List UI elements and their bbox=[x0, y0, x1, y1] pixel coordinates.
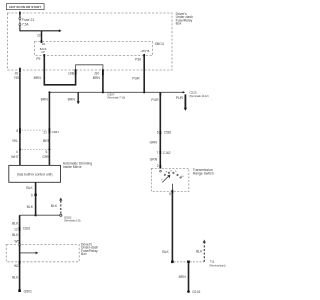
terminal J9 at fuse box bottom bbox=[19, 68, 21, 73]
svg-text:6: 6 bbox=[46, 150, 48, 154]
svg-text:C831: C831 bbox=[23, 227, 31, 231]
svg-text:6: 6 bbox=[31, 193, 33, 197]
svg-text:J10: J10 bbox=[94, 71, 100, 75]
svg-text:7.5A: 7.5A bbox=[22, 22, 29, 26]
svg-text:4: 4 bbox=[16, 150, 18, 154]
svg-text:(has built-in control unit): (has built-in control unit) bbox=[17, 173, 53, 177]
svg-text:PUR: PUR bbox=[176, 96, 184, 100]
svg-text:8: 8 bbox=[16, 129, 18, 133]
svg-text:HOT IN ON OR START: HOT IN ON OR START bbox=[9, 5, 41, 9]
svg-text:2: 2 bbox=[157, 164, 159, 168]
svg-text:BLK: BLK bbox=[27, 205, 34, 209]
wire into TRS bbox=[159, 154, 161, 168]
svg-text:W5: W5 bbox=[14, 239, 19, 243]
junction dot bbox=[34, 214, 36, 216]
link from wiper to output bbox=[171, 184, 173, 192]
arrow: feed continues to other circuits bbox=[59, 29, 62, 32]
svg-text:21: 21 bbox=[43, 131, 47, 135]
svg-text:(Terminals 1-8): (Terminals 1-8) bbox=[64, 219, 81, 223]
svg-text:Range Switch: Range Switch bbox=[193, 171, 214, 175]
svg-text:(Terminals 7-10): (Terminals 7-10) bbox=[107, 96, 125, 100]
svg-text:C525: C525 bbox=[189, 90, 197, 94]
svg-text:W2: W2 bbox=[14, 264, 19, 268]
hot-at-all-times label box bbox=[6, 4, 44, 10]
wire: P30 down out of box (PUR) bbox=[143, 55, 145, 91]
junction dot at P30 wire bbox=[143, 91, 145, 93]
svg-text:BRN: BRN bbox=[68, 97, 76, 101]
svg-text:22: 22 bbox=[37, 33, 41, 37]
internal jumper 10B to J10 bbox=[76, 65, 103, 70]
svg-text:PUR: PUR bbox=[151, 98, 159, 102]
svg-text:C581: C581 bbox=[164, 131, 172, 135]
label bottom box bbox=[81, 243, 98, 256]
junction dot left end bbox=[48, 91, 50, 93]
wire: junction line down to TRS (PUR) bbox=[159, 93, 161, 96]
connector C831 terminal 12 bbox=[19, 227, 21, 231]
svg-text:BLK: BLK bbox=[12, 276, 19, 280]
wire: bus down to under-dash box (BLK) bbox=[19, 215, 21, 290]
wire: TRS down (BLK) bbox=[171, 194, 173, 261]
wire: J9 down to mirror (YEL) bbox=[19, 72, 21, 165]
transmission range switch (dashed box) bbox=[151, 168, 188, 191]
dashed reference arrow up (BLK, ground distribution) bbox=[203, 242, 205, 262]
wire: T11 to ground (BRN) bbox=[188, 263, 190, 290]
SBCU sub-unit (dashed) bbox=[34, 42, 152, 56]
connector C162 terminal 7 bbox=[159, 151, 161, 155]
TRS output terminal bbox=[172, 190, 174, 194]
svg-text:12: 12 bbox=[14, 227, 18, 231]
splice square bbox=[171, 261, 174, 264]
svg-text:C831: C831 bbox=[52, 130, 60, 134]
svg-text:BLK: BLK bbox=[26, 186, 33, 190]
terminal tick at SBCU top bbox=[41, 40, 43, 43]
power entry terminal at box top bbox=[19, 12, 21, 15]
svg-text:10B: 10B bbox=[68, 71, 75, 75]
svg-text:Box: Box bbox=[176, 21, 182, 25]
wire: fuse output, down and right, ends in arrow (continues) bbox=[20, 25, 59, 31]
fuse 21 (7.5A) bbox=[19, 18, 21, 26]
svg-text:Inside Mirror: Inside Mirror bbox=[63, 165, 83, 169]
svg-text:5: 5 bbox=[157, 131, 159, 135]
in-line connector C831 bbox=[22, 129, 48, 131]
wire: mirror ground (BLK) bbox=[35, 182, 37, 215]
svg-text:GRN: GRN bbox=[150, 158, 158, 162]
wire: junction line down to mirror (BRN) bbox=[48, 92, 50, 165]
svg-text:ATP B: ATP B bbox=[141, 49, 149, 53]
svg-text:(Terminals 10-12): (Terminals 10-12) bbox=[189, 94, 209, 98]
svg-text:BLK: BLK bbox=[12, 222, 19, 226]
T11 square bbox=[187, 261, 190, 264]
svg-text:7: 7 bbox=[156, 151, 158, 155]
internal arrow bbox=[21, 252, 36, 254]
connector C581 terminal 5 bbox=[159, 131, 161, 135]
svg-text:BLK: BLK bbox=[196, 250, 203, 254]
svg-text:G101: G101 bbox=[192, 290, 200, 294]
svg-text:BRN: BRN bbox=[93, 76, 101, 80]
svg-text:GRN: GRN bbox=[149, 140, 157, 144]
svg-text:BRN: BRN bbox=[34, 76, 42, 80]
terminal 2 at TRS bbox=[159, 165, 161, 168]
ground G501 bbox=[18, 289, 21, 292]
wire: J10 down to junction line (BRN) bbox=[102, 75, 104, 93]
terminal J10 bbox=[102, 69, 104, 75]
driver's under-dash fuse/relay box (bottom, dashed) bbox=[6, 245, 79, 262]
svg-text:YEL: YEL bbox=[12, 139, 19, 143]
svg-text:BRN: BRN bbox=[179, 275, 187, 279]
svg-text:C162: C162 bbox=[163, 151, 171, 155]
hanging arrow below C525 (continues, PUR) bbox=[184, 94, 186, 108]
svg-text:Box: Box bbox=[81, 252, 87, 256]
svg-text:WHT: WHT bbox=[11, 155, 18, 159]
dashed reference arrow up (BLK) bbox=[60, 200, 62, 214]
terminal 10B bbox=[75, 69, 77, 75]
automatic dimming inside mirror box bbox=[9, 165, 61, 182]
junction line C507/C525 bbox=[50, 91, 185, 93]
svg-text:P9: P9 bbox=[36, 57, 40, 61]
svg-text:BLK: BLK bbox=[51, 204, 58, 208]
pin P30 tick bbox=[143, 54, 145, 57]
T11 terminal joint dashes bbox=[174, 261, 205, 263]
svg-text:PUR: PUR bbox=[132, 77, 140, 81]
label: Driver's Under-dash Fuse/Relay Box (top right) bbox=[176, 12, 193, 25]
pin P9 tick bbox=[43, 54, 45, 57]
svg-text:GRN: GRN bbox=[42, 155, 50, 159]
wire from hot bus to fuse bbox=[19, 13, 21, 18]
terminal W2 bbox=[19, 261, 21, 264]
svg-text:(Terminal joint): (Terminal joint) bbox=[209, 264, 225, 268]
svg-text:BRN: BRN bbox=[41, 97, 49, 101]
splice square on mirror ground bbox=[34, 194, 36, 196]
branch arrow down (to back-up lights) BRN bbox=[77, 92, 79, 101]
ground bus line bbox=[20, 214, 61, 216]
svg-text:BLK: BLK bbox=[162, 250, 169, 254]
node 22 junction and wire down into control unit bbox=[41, 31, 43, 42]
svg-text:T11: T11 bbox=[209, 260, 214, 264]
svg-text:G501: G501 bbox=[24, 289, 32, 293]
G502 eyelet circle bbox=[60, 214, 62, 216]
mirror pigtail connector bbox=[22, 148, 49, 150]
svg-text:BRN: BRN bbox=[43, 139, 51, 143]
svg-text:P30: P30 bbox=[135, 58, 141, 62]
svg-text:6: 6 bbox=[169, 192, 171, 196]
svg-text:UP: UP bbox=[41, 51, 45, 54]
switch lever with arrow bbox=[162, 176, 168, 182]
junction dot at J10 wire bbox=[102, 91, 104, 93]
svg-text:RA: RA bbox=[42, 42, 46, 46]
svg-text:BLK: BLK bbox=[12, 233, 19, 237]
junction arrow right end bbox=[183, 91, 186, 93]
wire: P9 down, right, up to terminal 10B (BRN) bbox=[44, 55, 75, 84]
ground G101 bbox=[187, 290, 190, 293]
switch contacts bbox=[160, 170, 182, 178]
svg-text:SBCU: SBCU bbox=[155, 42, 165, 46]
driver's under-dash fuse/relay box (dashed enclosure) bbox=[8, 13, 173, 70]
